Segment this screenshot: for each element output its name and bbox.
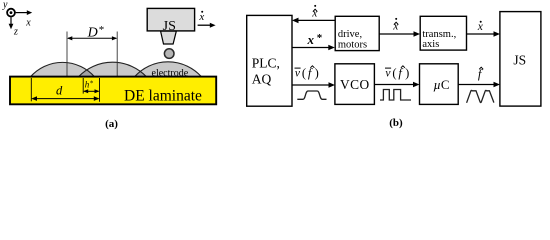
arrow: transm.,axis to JS (466, 31, 500, 37)
arrow: microcontroller to JS (458, 82, 500, 88)
overlap lens of dome 2 and dome 3 (135, 62, 202, 77)
svg-text:µC: µC (433, 77, 449, 92)
svg-text:JS: JS (513, 53, 526, 68)
label x-star (setpoint) (307, 32, 323, 47)
dimension h* extension line left (82, 78, 84, 94)
label x-hat-dot (feedback) (311, 5, 318, 20)
svg-text:x: x (307, 32, 315, 47)
dome outlines (31, 62, 202, 77)
svg-text:x: x (25, 18, 31, 29)
waveform: sine burst (microcontroller to JS) (467, 90, 494, 102)
svg-text:): ) (405, 66, 409, 80)
svg-text:(b): (b) (389, 117, 403, 129)
svg-text:z: z (13, 27, 18, 38)
svg-text:*: * (99, 24, 105, 36)
arrow: PLC to drive,motors (position setpoint) (292, 45, 335, 51)
arrow: VCO to microcontroller (375, 82, 420, 88)
label x-hat-dot (between drive and transm) (392, 18, 399, 33)
svg-text:*: * (317, 32, 323, 44)
stylus trapezoid under JS box (161, 31, 177, 44)
svg-text:PLC,: PLC, (252, 56, 280, 71)
svg-text:VCO: VCO (340, 77, 369, 92)
svg-text:AQ: AQ (252, 72, 272, 87)
svg-text:motors: motors (338, 39, 367, 50)
transm., axis block (420, 16, 466, 50)
dome 3 (active bump with electrode) (135, 62, 202, 77)
coordinate axes: z axis arrow (9, 17, 14, 29)
overlap lens of dome 1 and dome 2 (79, 62, 147, 77)
VCO block (335, 64, 375, 105)
dimension d arrow (31, 96, 99, 101)
arrow: PLC to VCO (292, 82, 335, 88)
svg-text:): ) (315, 66, 319, 80)
dimension d extension line left (30, 78, 32, 101)
dimension d / h* shared extension line right (99, 78, 101, 102)
coordinate axes: x axis arrow (16, 10, 33, 15)
arrow: drive,motors to transm.,axis (379, 31, 420, 37)
waveform: square wave (VCO to microcontroller) (380, 90, 411, 101)
DE laminate slab (yellow) (10, 77, 216, 105)
svg-text:D: D (87, 25, 98, 40)
svg-text:*: * (90, 80, 94, 88)
svg-text:(a): (a) (105, 118, 118, 130)
waveform: smooth voltage pulse (PLC to VCO) (297, 91, 326, 99)
PLC, AQ block (247, 15, 292, 106)
svg-text:x: x (198, 11, 204, 23)
svg-text:DE laminate: DE laminate (124, 87, 202, 104)
drive, motors block (335, 16, 379, 50)
svg-text:axis: axis (422, 39, 439, 50)
svg-text:y: y (2, 0, 8, 11)
JS block (panel b) (500, 12, 541, 107)
velocity arrow (panel a) (198, 23, 216, 28)
svg-text:(: ( (392, 66, 396, 80)
label x-dot (axis velocity) (477, 21, 484, 33)
label f-hat (vibration frequency) (478, 67, 483, 81)
microcontroller block (420, 64, 459, 105)
dome 1 (passive polymer bump) (31, 62, 95, 76)
label v-bar(f-hat) to VCO (295, 66, 319, 80)
stylus ball (164, 49, 174, 59)
dimension h* arrow (83, 89, 99, 93)
dimension D* extension line left (66, 32, 68, 77)
svg-text:v: v (295, 67, 301, 79)
JS box (panel a) (147, 8, 194, 31)
svg-text:(: ( (302, 66, 306, 80)
dimension D* extension line right (116, 32, 118, 77)
coordinate axes: origin circle (y axis out of page) (7, 9, 15, 17)
svg-text:d: d (56, 83, 63, 97)
label v-bar(f-hat) to microcontroller (385, 66, 409, 80)
arrow: drive,motors to PLC (velocity estimate feedback) (292, 18, 335, 24)
svg-text:v: v (385, 67, 391, 79)
dome 2 (passive polymer bump) (79, 62, 147, 77)
dimension D* arrow (67, 36, 117, 40)
